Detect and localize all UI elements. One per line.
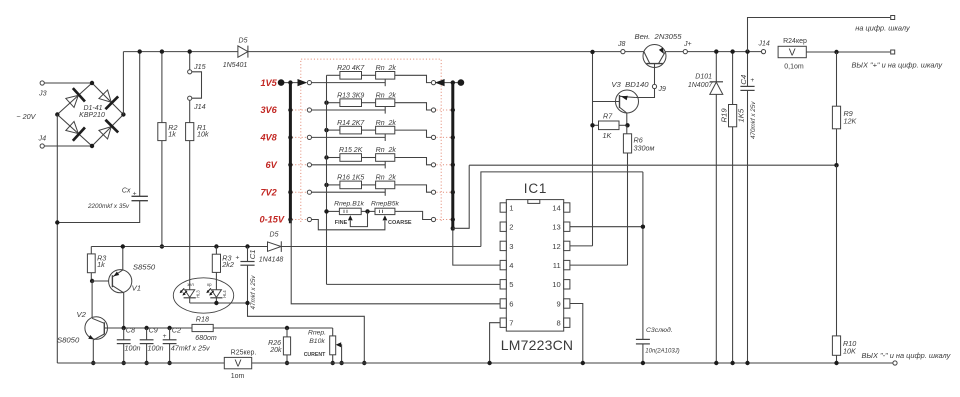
svg-text:0-15V: 0-15V xyxy=(259,215,284,225)
resistor R9 12K xyxy=(834,50,838,54)
resistor R19 1K5 xyxy=(732,52,734,105)
svg-text:10k: 10k xyxy=(197,129,209,138)
svg-text:C1: C1 xyxy=(248,249,257,259)
svg-text:HL3: HL3 xyxy=(196,290,201,298)
svg-text:D1-41: D1-41 xyxy=(83,105,102,112)
resistor R3 1k xyxy=(90,247,92,254)
svg-text:680om: 680om xyxy=(195,335,217,342)
svg-text:зел: зел xyxy=(187,282,194,287)
svg-text:RперB5k: RперB5k xyxy=(371,200,400,207)
diode D101 1N4007 xyxy=(715,52,717,82)
svg-text:330ом: 330ом xyxy=(634,143,655,152)
capacitor C2 47mkf xyxy=(169,328,171,340)
svg-text:HL4: HL4 xyxy=(222,290,227,298)
rail B riser and upper run xyxy=(481,172,643,247)
wire: riser to pin5 xyxy=(327,283,501,285)
wire: bridge minus rail down left side xyxy=(56,115,58,364)
wire: pin12 up to top bus xyxy=(570,245,593,247)
IC1 pin 4 xyxy=(500,260,506,269)
svg-text:100n: 100n xyxy=(148,343,164,352)
transistor V2 S8050 xyxy=(91,281,93,318)
svg-text:10K: 10K xyxy=(843,347,857,356)
IC1 LM7223CN xyxy=(506,200,563,332)
svg-text:Rпер.B1k: Rпер.B1k xyxy=(334,200,364,207)
svg-text:1K5: 1K5 xyxy=(737,108,746,122)
svg-text:4V8: 4V8 xyxy=(259,133,277,143)
svg-text:KBP210: KBP210 xyxy=(79,112,105,119)
svg-text:12: 12 xyxy=(552,242,560,251)
terminal J3 xyxy=(44,82,92,84)
svg-text:1V5: 1V5 xyxy=(260,78,277,88)
svg-text:FINE: FINE xyxy=(335,220,348,226)
COARSE wiper xyxy=(383,215,388,220)
terminal J8 xyxy=(621,50,625,54)
svg-text:Rn 2k: Rn 2k xyxy=(376,92,397,99)
wire: top bus left of D5 xyxy=(123,51,237,53)
svg-text:2200mkf x 35v: 2200mkf x 35v xyxy=(87,203,130,210)
resistor R26 20k xyxy=(286,328,288,337)
svg-text:J+: J+ xyxy=(683,41,692,48)
LED common cathode wire xyxy=(190,302,248,304)
IC1 pin 2 xyxy=(500,222,506,231)
IC1 pin 8 xyxy=(564,318,570,327)
svg-text:1k: 1k xyxy=(97,260,105,269)
svg-text:J15: J15 xyxy=(193,62,207,71)
svg-text:Вен. 2N3055: Вен. 2N3055 xyxy=(635,32,683,41)
wire: pin9 to ground xyxy=(570,304,583,364)
IC1 pin 5 xyxy=(500,280,506,289)
svg-text:S8550: S8550 xyxy=(133,262,156,271)
wire: left bus down to pin6 xyxy=(291,220,500,304)
svg-text:1N5401: 1N5401 xyxy=(223,62,248,69)
svg-text:кр: кр xyxy=(207,282,212,287)
bridge diode top-right xyxy=(97,88,118,109)
svg-text:B10k: B10k xyxy=(309,338,325,345)
wire: top bus D5 to J8 xyxy=(248,51,623,53)
svg-text:Rn 2k: Rn 2k xyxy=(376,147,397,154)
svg-text:C2: C2 xyxy=(172,326,181,335)
bridge rectifier D1-41 KBP210 xyxy=(57,83,123,146)
svg-text:J4: J4 xyxy=(38,134,47,143)
svg-text:1K: 1K xyxy=(603,131,613,140)
svg-text:R18: R18 xyxy=(196,315,209,324)
svg-text:7V2: 7V2 xyxy=(260,187,277,197)
resistor R2 1k xyxy=(161,52,163,123)
transistor V1 S8550 xyxy=(92,280,109,282)
diode D5 1N4148 xyxy=(268,242,282,251)
IC1 pin 7 xyxy=(500,318,506,327)
svg-text:12K: 12K xyxy=(844,117,858,126)
capacitor C8 100n xyxy=(123,328,125,340)
svg-text:V: V xyxy=(235,359,242,370)
svg-text:1k: 1k xyxy=(168,129,176,138)
wire: top link на цифр. шкалу xyxy=(748,18,891,52)
svg-text:1: 1 xyxy=(509,203,513,212)
wire: V2 collector line xyxy=(108,327,193,329)
capacitor C1 47mkf x 25v xyxy=(245,244,249,248)
svg-text:3: 3 xyxy=(509,242,513,251)
transistor 2N3055 xyxy=(643,45,666,68)
svg-text:D101: D101 xyxy=(695,73,712,80)
svg-text:R19: R19 xyxy=(720,108,729,123)
svg-text:CURENT: CURENT xyxy=(304,352,326,358)
voltmeter R24кер 0,1om xyxy=(778,46,806,57)
right selector bus xyxy=(451,83,454,231)
svg-text:1N4148: 1N4148 xyxy=(259,257,284,264)
rail A xyxy=(469,164,836,166)
svg-text:R24кер: R24кер xyxy=(783,38,807,45)
IC1 pin 13 xyxy=(564,222,570,231)
svg-text:R15 2K: R15 2K xyxy=(339,147,363,154)
wire: pin7 to ground xyxy=(490,323,501,363)
transistor V3 BD140 xyxy=(616,90,639,113)
svg-text:Rn 2k: Rn 2k xyxy=(376,65,397,72)
IC1 pin 3 xyxy=(500,241,506,250)
svg-text:S8050: S8050 xyxy=(57,336,80,345)
capacitor C9 100n xyxy=(146,328,148,340)
svg-text:V1: V1 xyxy=(132,283,141,292)
capacitor C4 470mkf x 25v xyxy=(747,52,749,87)
bridge diode bottom-left xyxy=(64,119,85,140)
svg-text:LM7223CN: LM7223CN xyxy=(501,337,573,353)
bottom rail (under R25 box) xyxy=(57,362,893,364)
terminal ВЫХ minus xyxy=(893,361,897,365)
IC1 pin 1 xyxy=(500,203,506,212)
resistor R7 1K xyxy=(593,124,599,126)
svg-text:J14: J14 xyxy=(758,40,770,47)
resistor R3 2k2 xyxy=(214,244,218,248)
pot Rпер B10k CURENT xyxy=(332,328,334,336)
svg-text:47mkf x 25v: 47mkf x 25v xyxy=(250,275,257,310)
IC1 pin 12 xyxy=(564,241,570,250)
svg-text:ВЫХ "-" и на цифр. шкалу: ВЫХ "-" и на цифр. шкалу xyxy=(862,351,952,360)
IC1 pin 11 xyxy=(564,260,570,269)
svg-text:0,1om: 0,1om xyxy=(784,64,804,71)
svg-text:100n: 100n xyxy=(125,343,141,352)
svg-text:R20 4K7: R20 4K7 xyxy=(337,65,365,72)
selector row 3V6 xyxy=(311,109,385,111)
svg-text:C9: C9 xyxy=(149,326,158,335)
resistor R6 330ом xyxy=(626,125,628,134)
IC1 pin 9 xyxy=(564,299,570,308)
wire: right bus down to pin4 xyxy=(453,231,500,266)
svg-text:+: + xyxy=(133,190,137,197)
selector row 6V xyxy=(311,164,385,166)
voltmeter R25кер 1om xyxy=(224,357,251,368)
wire: R24 to ВЫХ+ xyxy=(806,51,890,53)
svg-text:1om: 1om xyxy=(231,373,245,380)
svg-text:J8: J8 xyxy=(617,41,626,48)
svg-text:Rn 2k: Rn 2k xyxy=(376,120,397,127)
FINE wiper xyxy=(348,215,353,220)
svg-text:5: 5 xyxy=(509,280,513,289)
capacitor Cx 2200mkf x 35v xyxy=(139,52,141,197)
svg-text:C4: C4 xyxy=(739,75,748,85)
row 1V5 jumper arrows xyxy=(281,82,298,84)
svg-text:COARSE: COARSE xyxy=(388,220,412,226)
svg-text:D5: D5 xyxy=(239,38,248,45)
svg-text:+: + xyxy=(750,77,754,84)
wire: pin11 to R6 xyxy=(570,264,628,266)
left selector bus xyxy=(289,83,292,224)
wire: right bus to rail A xyxy=(453,165,469,228)
LED ellipse group xyxy=(173,278,233,313)
svg-text:V3 BD140: V3 BD140 xyxy=(611,80,649,89)
svg-text:47mkf x 25v: 47mkf x 25v xyxy=(171,343,210,352)
terminal J9 xyxy=(654,64,656,85)
svg-text:13: 13 xyxy=(552,223,560,232)
common riser xyxy=(326,75,328,284)
svg-text:С3слюд.: С3слюд. xyxy=(646,326,673,334)
svg-text:D5: D5 xyxy=(270,231,279,238)
resistor R10 10K xyxy=(836,165,838,336)
svg-text:V2: V2 xyxy=(77,310,87,319)
resistor R18 680om xyxy=(192,324,213,331)
svg-text:2k2: 2k2 xyxy=(221,260,234,269)
svg-text:1N4007: 1N4007 xyxy=(688,82,714,89)
svg-text:~ 20V: ~ 20V xyxy=(16,112,36,121)
svg-text:3V6: 3V6 xyxy=(260,105,277,115)
svg-text:6: 6 xyxy=(509,299,513,308)
svg-text:14: 14 xyxy=(552,203,560,212)
IC1 pin 10 xyxy=(564,280,570,289)
selector row 7V2 xyxy=(311,191,385,193)
svg-text:R16 1K5: R16 1K5 xyxy=(337,175,364,182)
LED HL4 кр xyxy=(211,290,221,298)
pot row 0-15V FINE/COARSE xyxy=(327,210,340,212)
svg-text:+: + xyxy=(163,333,167,340)
svg-text:J9: J9 xyxy=(658,86,667,93)
terminal J4 xyxy=(44,145,92,147)
svg-text:8: 8 xyxy=(556,319,560,328)
svg-text:V: V xyxy=(789,48,796,59)
svg-text:на цифр. шкалу: на цифр. шкалу xyxy=(855,24,911,33)
bridge node dots xyxy=(90,81,94,85)
svg-text:R14 2K7: R14 2K7 xyxy=(337,120,365,127)
svg-text:11: 11 xyxy=(553,261,561,270)
terminal J+ xyxy=(683,50,687,54)
wire: pin13 junction xyxy=(570,226,643,228)
LED HL3 зел xyxy=(185,290,195,298)
wire: bridge plus up to top bus xyxy=(122,52,124,115)
svg-text:J3: J3 xyxy=(38,89,47,98)
selector row 4V8 xyxy=(311,136,385,138)
svg-text:7: 7 xyxy=(509,319,513,328)
svg-text:9: 9 xyxy=(556,299,560,308)
svg-text:ВЫХ "+" и на цифр. шкалу: ВЫХ "+" и на цифр. шкалу xyxy=(852,60,944,69)
capacitor C3 10n xyxy=(642,172,644,340)
IC1 pin 14 xyxy=(564,203,570,212)
svg-text:R13 3K9: R13 3K9 xyxy=(337,92,364,99)
svg-text:10n(2А103J): 10n(2А103J) xyxy=(645,349,679,355)
svg-text:J14: J14 xyxy=(193,102,206,111)
svg-text:Rпер.: Rпер. xyxy=(308,329,326,336)
jumper J15/J14 xyxy=(189,52,191,70)
bridge diode bottom-right xyxy=(97,120,118,141)
svg-text:2: 2 xyxy=(509,223,513,232)
svg-text:R7: R7 xyxy=(603,112,613,121)
svg-text:20k: 20k xyxy=(269,347,282,354)
svg-text:+: + xyxy=(235,254,239,261)
svg-text:IC1: IC1 xyxy=(524,181,547,196)
bridge diode top-left xyxy=(64,88,85,109)
svg-text:470mkf x 25v: 470mkf x 25v xyxy=(750,101,757,139)
terminal J14 (output) xyxy=(761,50,765,54)
selector row 1V5 xyxy=(311,82,385,84)
svg-text:Cx: Cx xyxy=(122,186,131,195)
svg-text:Rn 2k: Rn 2k xyxy=(376,175,397,182)
svg-text:4: 4 xyxy=(509,261,513,270)
red dotted box xyxy=(301,59,441,222)
svg-text:10: 10 xyxy=(552,280,560,289)
diode D5 1N5401 xyxy=(238,46,248,57)
svg-text:C8: C8 xyxy=(126,326,135,335)
resistor R1 10k xyxy=(189,100,191,122)
IC1 pin 6 xyxy=(500,299,506,308)
rail B left part xyxy=(91,246,267,248)
svg-text:6V: 6V xyxy=(266,160,278,170)
svg-text:R25кер.: R25кер. xyxy=(231,350,257,357)
